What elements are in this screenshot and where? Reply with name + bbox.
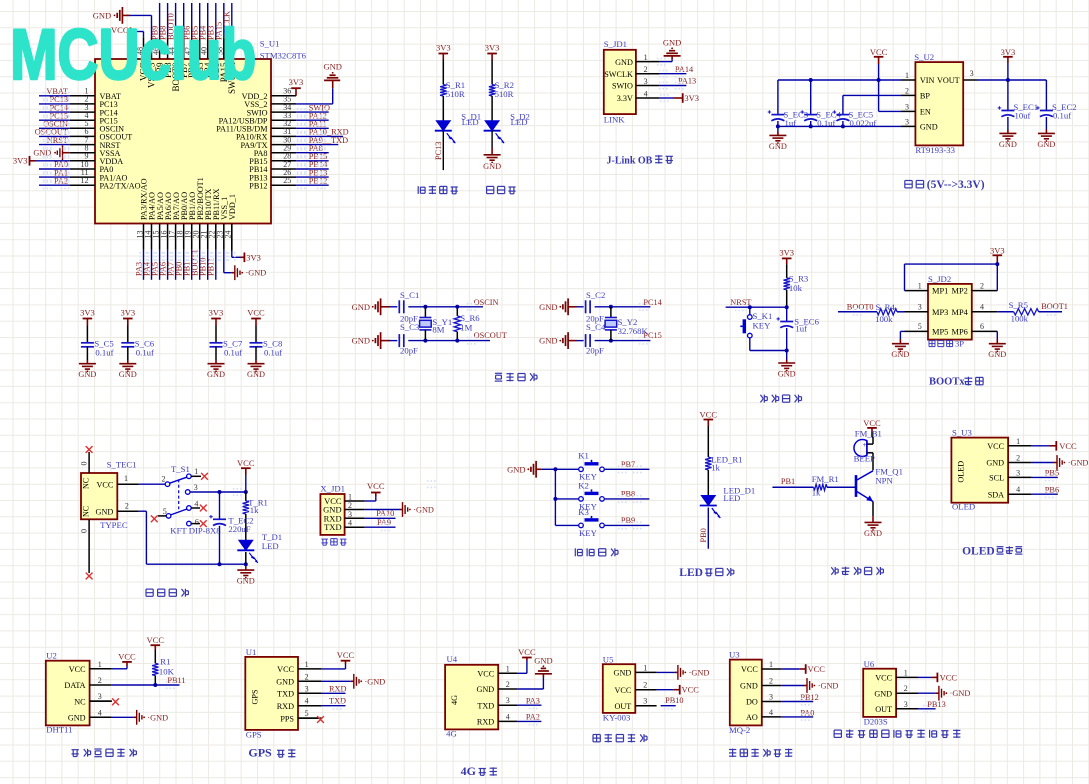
svg-text:MP3: MP3 (932, 308, 948, 317)
svg-text:GND: GND (352, 302, 370, 312)
svg-text:OLED: OLED (956, 461, 965, 483)
svg-text:GND: GND (778, 370, 796, 379)
svg-text:0.1uf: 0.1uf (136, 348, 154, 358)
svg-text:U4: U4 (447, 654, 458, 664)
svg-text:GND: GND (999, 140, 1017, 149)
svg-text:OSCOUT: OSCOUT (474, 331, 507, 340)
svg-text:3: 3 (506, 696, 510, 705)
svg-text:T_S1: T_S1 (171, 464, 190, 474)
svg-text:3: 3 (905, 103, 909, 112)
svg-text:VCC: VCC (870, 47, 888, 57)
svg-text:GND: GND (68, 714, 86, 723)
svg-text:FM_B1: FM_B1 (855, 429, 882, 439)
svg-text:PB9: PB9 (621, 516, 635, 525)
svg-text:1k: 1k (250, 505, 259, 515)
svg-text:4: 4 (1016, 485, 1020, 494)
svg-text:S_R4: S_R4 (876, 302, 896, 312)
svg-text:GND: GND (615, 58, 633, 67)
svg-text:10K: 10K (159, 666, 175, 676)
svg-text:K2: K2 (578, 480, 589, 490)
svg-text:MP1: MP1 (932, 287, 948, 296)
svg-text:S_R5: S_R5 (1009, 300, 1028, 310)
svg-text:SCL: SCL (989, 474, 1004, 483)
svg-text:1: 1 (643, 663, 647, 672)
svg-text:KEY: KEY (579, 528, 598, 538)
svg-text:0.1uf: 0.1uf (1053, 111, 1071, 121)
svg-text:PB0: PB0 (699, 528, 708, 542)
svg-text:1: 1 (194, 467, 198, 476)
svg-text:3V3: 3V3 (246, 252, 261, 262)
svg-text:3V3: 3V3 (684, 93, 699, 103)
svg-text:GND: GND (534, 656, 552, 666)
svg-text:GPS: GPS (250, 689, 259, 704)
svg-text:3V3: 3V3 (485, 43, 500, 53)
svg-text:LED: LED (511, 117, 528, 127)
svg-text:1uf: 1uf (795, 324, 807, 334)
svg-text:1: 1 (98, 660, 102, 669)
svg-text:S_TEC1: S_TEC1 (107, 460, 137, 470)
svg-text:J-Link OB: J-Link OB (607, 155, 653, 166)
svg-text:2: 2 (162, 475, 166, 484)
svg-text:VCC: VCC (808, 664, 826, 674)
svg-text:OLED: OLED (962, 546, 995, 558)
svg-text:2: 2 (348, 501, 352, 510)
svg-text:GPS: GPS (248, 746, 272, 760)
svg-text:GND: GND (323, 62, 341, 72)
svg-text:VCC: VCC (614, 686, 631, 695)
svg-text:VCC: VCC (875, 674, 892, 683)
svg-text:X_JD1: X_JD1 (320, 484, 345, 494)
svg-text:U6: U6 (864, 659, 875, 669)
svg-text:2: 2 (643, 681, 647, 690)
svg-text:·GND: ·GND (147, 713, 168, 722)
svg-text:PB10: PB10 (665, 696, 683, 705)
svg-text:S_U1: S_U1 (260, 39, 280, 49)
svg-text:PA10: PA10 (376, 509, 394, 518)
svg-text:3: 3 (194, 483, 198, 492)
svg-text:3: 3 (905, 118, 909, 127)
svg-text:4G: 4G (461, 764, 476, 778)
svg-text:3: 3 (904, 700, 908, 709)
svg-text:MP5: MP5 (932, 327, 948, 336)
svg-text:4: 4 (348, 519, 352, 528)
svg-text:VCC: VCC (118, 651, 136, 661)
svg-text:PA2/TX/AO: PA2/TX/AO (100, 181, 141, 190)
svg-text:KEY: KEY (753, 320, 772, 330)
svg-text:1: 1 (124, 474, 128, 483)
svg-text:GND: GND (119, 370, 137, 379)
svg-text:RXD: RXD (477, 718, 494, 727)
svg-text:PB6: PB6 (1045, 485, 1059, 494)
svg-text:220uF: 220uF (228, 524, 250, 534)
svg-text:100k: 100k (1011, 314, 1029, 324)
svg-text:GND: GND (207, 370, 225, 379)
svg-text:1: 1 (905, 71, 909, 80)
svg-text:2: 2 (98, 676, 102, 685)
svg-text:3V3: 3V3 (1001, 47, 1016, 57)
svg-text:TXD: TXD (329, 696, 346, 705)
svg-text:VCC: VCC (700, 410, 718, 420)
svg-text:0: 0 (80, 529, 89, 533)
svg-text:VCC: VCC (940, 672, 958, 682)
svg-text:2: 2 (905, 87, 909, 96)
svg-text:PA14: PA14 (675, 65, 694, 74)
svg-text:2: 2 (125, 502, 129, 511)
svg-text:TXD: TXD (477, 701, 494, 710)
svg-text:VCC: VCC (863, 418, 881, 428)
svg-text:3V3: 3V3 (13, 155, 28, 165)
svg-text:GND: GND (507, 465, 525, 475)
svg-text:VCC: VCC (247, 308, 265, 318)
svg-text:GND: GND (78, 370, 96, 379)
svg-text:U3: U3 (729, 649, 740, 659)
svg-text:BOOT1: BOOT1 (1041, 302, 1068, 311)
svg-text:OSCIN: OSCIN (474, 298, 499, 307)
svg-text:AO: AO (746, 713, 758, 722)
svg-text:LINK: LINK (604, 115, 625, 125)
svg-text:BP: BP (920, 91, 930, 100)
svg-text:NPN: NPN (875, 476, 893, 486)
svg-text:RT9193-33: RT9193-33 (915, 145, 955, 155)
svg-text:VIN: VIN (920, 76, 935, 85)
svg-text:GND: GND (874, 689, 892, 698)
svg-text:1: 1 (506, 664, 510, 673)
svg-text:PB5: PB5 (1045, 469, 1059, 478)
svg-text:GPS: GPS (246, 730, 262, 740)
svg-text:NC: NC (82, 478, 91, 489)
svg-text:100k: 100k (875, 314, 893, 324)
svg-text:MP6: MP6 (952, 327, 968, 336)
svg-text:3V3: 3V3 (289, 77, 304, 87)
svg-text:TYPEC: TYPEC (100, 520, 128, 530)
svg-text:2: 2 (769, 677, 773, 686)
svg-text:DHT11: DHT11 (46, 725, 72, 735)
svg-text:1: 1 (1016, 437, 1020, 446)
svg-text:3V3: 3V3 (436, 43, 451, 53)
svg-text:3: 3 (1016, 468, 1020, 477)
svg-text:FM_R1: FM_R1 (812, 474, 839, 484)
svg-text:VDD_1: VDD_1 (228, 194, 237, 220)
svg-text:2: 2 (305, 672, 309, 681)
svg-text:4G: 4G (446, 728, 457, 738)
svg-text:·GND: ·GND (950, 689, 971, 698)
svg-text:GND: GND (483, 162, 501, 171)
svg-text:0.1uf: 0.1uf (95, 348, 113, 358)
svg-text:STM32C8T6: STM32C8T6 (260, 51, 307, 61)
svg-text:S_JD2: S_JD2 (928, 274, 951, 284)
svg-text:PC13: PC13 (434, 142, 443, 160)
svg-text:GND: GND (539, 302, 557, 312)
svg-text:RXD: RXD (277, 702, 294, 711)
svg-text:D203S: D203S (864, 717, 888, 727)
svg-text:BEEP: BEEP (854, 453, 875, 463)
svg-text:PA2: PA2 (526, 713, 540, 722)
svg-text:3: 3 (918, 303, 922, 312)
svg-text:6: 6 (980, 322, 984, 331)
svg-text:1: 1 (769, 660, 773, 669)
svg-text:1: 1 (904, 668, 908, 677)
svg-text:1: 1 (918, 281, 922, 290)
svg-text:3: 3 (769, 693, 773, 702)
svg-text:GND: GND (247, 370, 265, 379)
svg-text:+: + (863, 441, 867, 449)
svg-text:VCC: VCC (987, 442, 1004, 451)
svg-text:4: 4 (980, 303, 984, 312)
svg-text:3V3: 3V3 (80, 308, 95, 318)
svg-text:2: 2 (644, 65, 648, 74)
svg-text:VCC: VCC (741, 665, 758, 674)
svg-text:PA3: PA3 (526, 697, 540, 706)
svg-text:LED: LED (723, 493, 740, 503)
svg-text:0: 0 (80, 462, 89, 466)
svg-text:GND: GND (740, 682, 758, 691)
svg-text:TXD: TXD (277, 690, 294, 699)
svg-text:NC: NC (74, 697, 86, 706)
svg-text:10k: 10k (789, 283, 803, 293)
svg-text:GND: GND (352, 336, 370, 346)
svg-text:EN: EN (920, 107, 931, 116)
svg-text:PA13: PA13 (678, 77, 696, 86)
svg-text:OUT: OUT (875, 705, 892, 714)
svg-text:·GND: ·GND (246, 269, 267, 278)
svg-text:VCC: VCC (477, 670, 494, 679)
svg-text:GND: GND (920, 122, 938, 131)
svg-text:4: 4 (769, 708, 773, 717)
svg-text:TXD: TXD (324, 522, 341, 532)
svg-text:SWIO: SWIO (612, 82, 633, 91)
svg-text:OUT: OUT (614, 702, 631, 711)
svg-text:S_U3: S_U3 (952, 428, 972, 438)
svg-text:U5: U5 (603, 655, 614, 665)
svg-text:DATA: DATA (64, 681, 85, 690)
svg-text:S_JD1: S_JD1 (604, 39, 627, 49)
svg-text:GND: GND (476, 685, 494, 694)
svg-text:VCC: VCC (147, 635, 165, 645)
svg-text:BOOTx: BOOTx (929, 377, 965, 388)
svg-text:R1: R1 (160, 657, 170, 667)
svg-text:PB7: PB7 (621, 460, 635, 469)
svg-text:PPS: PPS (280, 714, 294, 723)
svg-text:·GND: ·GND (413, 506, 434, 515)
svg-text:12: 12 (81, 176, 89, 185)
svg-text:GND: GND (539, 336, 557, 346)
svg-text:3V3: 3V3 (779, 247, 794, 257)
svg-text:VCC: VCC (1059, 441, 1077, 451)
svg-text:LED: LED (262, 541, 279, 551)
svg-text:20pF: 20pF (586, 346, 604, 356)
svg-text:3: 3 (348, 510, 352, 519)
svg-text:GND: GND (769, 142, 787, 151)
svg-text:GND: GND (891, 350, 909, 359)
svg-text:510R: 510R (446, 89, 465, 99)
svg-text:RXD: RXD (329, 684, 347, 693)
svg-text:1k: 1k (812, 487, 821, 497)
svg-text:GND: GND (986, 459, 1004, 468)
svg-text:GND: GND (614, 669, 632, 678)
svg-text:·GND: ·GND (818, 682, 839, 691)
svg-text:1: 1 (644, 53, 648, 62)
svg-text:1M: 1M (460, 323, 472, 333)
svg-text:2: 2 (1016, 454, 1020, 463)
svg-text:1k: 1k (711, 463, 720, 473)
svg-text:3: 3 (98, 692, 102, 701)
svg-text:25: 25 (283, 176, 291, 185)
svg-text:3: 3 (305, 684, 309, 693)
svg-text:32.768K: 32.768K (618, 326, 649, 336)
svg-text:PB11: PB11 (167, 676, 185, 685)
svg-text:GND: GND (864, 529, 882, 538)
svg-text:LED: LED (679, 567, 703, 579)
svg-text:PB12: PB12 (249, 181, 267, 190)
svg-text:·GND: ·GND (365, 677, 386, 686)
svg-text:MCUclub: MCUclub (10, 15, 256, 95)
svg-text:GND: GND (33, 149, 51, 158)
svg-text:U1: U1 (246, 647, 257, 657)
svg-text:20pF: 20pF (400, 346, 418, 356)
svg-text:3: 3 (644, 77, 648, 86)
svg-text:4: 4 (305, 697, 309, 706)
svg-text:MP4: MP4 (952, 308, 969, 317)
svg-text:510R: 510R (495, 89, 514, 99)
svg-text:3.3V: 3.3V (617, 94, 633, 103)
svg-text:0.1uf: 0.1uf (224, 348, 242, 358)
svg-text:5: 5 (305, 709, 309, 718)
svg-text:5: 5 (918, 322, 922, 331)
svg-text:KFT DIP-8X8: KFT DIP-8X8 (170, 526, 221, 536)
svg-text:4: 4 (644, 90, 648, 99)
svg-text:10uf: 10uf (1015, 111, 1031, 121)
svg-text:PB1: PB1 (781, 477, 795, 486)
svg-text:DO: DO (746, 698, 758, 707)
svg-text:GND: GND (663, 37, 681, 47)
svg-text:8M: 8M (432, 324, 444, 334)
svg-text:3: 3 (970, 69, 974, 78)
svg-text:2: 2 (980, 281, 984, 290)
svg-text:(5V-->3.3V): (5V-->3.3V) (927, 179, 985, 191)
svg-text:SWCLK: SWCLK (604, 70, 633, 79)
svg-text:3P: 3P (955, 339, 964, 349)
svg-text:U2: U2 (46, 650, 57, 660)
svg-text:VOUT: VOUT (937, 76, 960, 85)
svg-text:PB13: PB13 (927, 700, 945, 709)
svg-text:3: 3 (643, 697, 647, 706)
svg-text:GND: GND (96, 507, 114, 516)
svg-text:PB8: PB8 (621, 489, 635, 498)
svg-text:VCC: VCC (337, 650, 355, 660)
svg-text:GND: GND (237, 577, 255, 586)
svg-text:S_C2: S_C2 (586, 290, 605, 300)
svg-text:S_C4: S_C4 (586, 322, 606, 332)
svg-text:MP2: MP2 (952, 287, 968, 296)
svg-text:·GND: ·GND (1068, 459, 1089, 468)
svg-text:PA9: PA9 (377, 518, 391, 527)
svg-text:3V3: 3V3 (120, 308, 135, 318)
svg-text:GND: GND (276, 678, 294, 687)
svg-text:3V3: 3V3 (209, 308, 224, 318)
svg-text:4G: 4G (450, 695, 459, 705)
svg-text:BOOT0: BOOT0 (847, 303, 874, 312)
svg-text:K3: K3 (578, 507, 589, 517)
svg-text:OLED: OLED (952, 502, 975, 512)
svg-text:VCC: VCC (682, 685, 700, 695)
svg-text:KY-003: KY-003 (603, 713, 631, 723)
svg-text:GND: GND (988, 350, 1006, 359)
svg-text:SDA: SDA (988, 490, 1004, 499)
svg-text:0.1uf: 0.1uf (264, 348, 282, 358)
svg-text:1: 1 (305, 660, 309, 669)
svg-text:VCC: VCC (237, 458, 255, 468)
svg-text:3V3: 3V3 (990, 246, 1005, 256)
svg-text:LED: LED (462, 117, 479, 127)
svg-text:VCC: VCC (96, 480, 113, 489)
svg-text:VCC: VCC (69, 665, 86, 674)
svg-text:VCC: VCC (367, 481, 385, 491)
svg-text:S_R6: S_R6 (460, 313, 480, 323)
svg-text:MQ-2: MQ-2 (729, 725, 750, 735)
svg-text:S_C1: S_C1 (400, 290, 419, 300)
svg-text:K1: K1 (578, 451, 589, 461)
svg-text:PC14: PC14 (643, 298, 662, 307)
svg-text:·GND: ·GND (689, 668, 710, 677)
svg-text:S_U2: S_U2 (914, 52, 934, 62)
svg-text:4: 4 (506, 712, 510, 721)
svg-text:VCC: VCC (277, 665, 294, 674)
svg-text:GND: GND (1037, 140, 1055, 149)
svg-text:4: 4 (194, 500, 198, 509)
svg-text:NC: NC (82, 506, 91, 517)
svg-text:2: 2 (904, 684, 908, 693)
svg-text:4: 4 (98, 708, 102, 717)
svg-text:S_C3: S_C3 (400, 322, 419, 332)
svg-text:2: 2 (506, 680, 510, 689)
